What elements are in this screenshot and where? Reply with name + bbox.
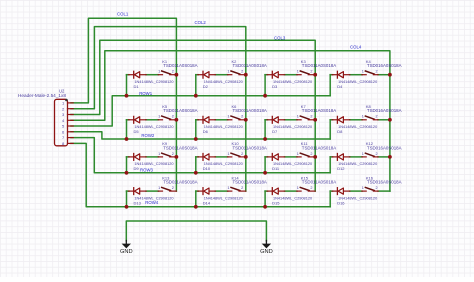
svg-text:1: 1 [158, 70, 160, 74]
svg-text:1: 1 [158, 186, 160, 190]
svg-text:TSD011A0S018A: TSD011A0S018A [233, 180, 267, 185]
svg-text:2: 2 [376, 186, 378, 190]
svg-text:TSD011A0S018A: TSD011A0S018A [233, 145, 267, 150]
svg-text:GND: GND [120, 249, 133, 255]
svg-text:1N4148WL_C2908120: 1N4148WL_C2908120 [204, 80, 243, 84]
svg-text:D16: D16 [337, 200, 345, 205]
svg-text:2: 2 [310, 186, 312, 190]
svg-text:TSD016A0S018A: TSD016A0S018A [367, 145, 402, 150]
svg-text:2: 2 [241, 152, 243, 156]
svg-text:2: 2 [172, 115, 174, 119]
svg-text:Header-Male-2.54_1x8: Header-Male-2.54_1x8 [18, 93, 66, 98]
svg-text:TSD011A0S018A: TSD011A0S018A [302, 180, 336, 185]
svg-text:1: 1 [227, 186, 229, 190]
svg-text:2: 2 [241, 186, 243, 190]
svg-text:D13: D13 [134, 200, 142, 205]
svg-text:ROW2: ROW2 [141, 133, 155, 138]
svg-text:TSD011A0S018A: TSD011A0S018A [233, 63, 267, 68]
svg-text:1: 1 [362, 70, 364, 74]
svg-text:D10: D10 [203, 166, 211, 171]
svg-text:1: 1 [362, 186, 364, 190]
svg-text:1: 1 [297, 115, 299, 119]
svg-text:D4: D4 [337, 84, 343, 89]
svg-text:1: 1 [297, 186, 299, 190]
svg-text:ROW3: ROW3 [140, 167, 154, 172]
svg-text:1N4148WL_C2908120: 1N4148WL_C2908120 [338, 80, 377, 84]
svg-text:1N4148WL_C2908120: 1N4148WL_C2908120 [338, 125, 377, 129]
svg-text:1: 1 [158, 152, 160, 156]
svg-text:1N4148WL_C2908120: 1N4148WL_C2908120 [134, 162, 173, 166]
svg-text:1: 1 [362, 115, 364, 119]
svg-text:2: 2 [172, 70, 174, 74]
svg-text:2: 2 [241, 115, 243, 119]
svg-text:TSD016A0S018A: TSD016A0S018A [367, 63, 402, 68]
svg-text:2: 2 [376, 152, 378, 156]
svg-text:TSD016A0S018A: TSD016A0S018A [367, 180, 402, 185]
svg-text:TSD011A0S018A: TSD011A0S018A [233, 108, 267, 113]
svg-text:2: 2 [310, 115, 312, 119]
svg-text:D8: D8 [337, 129, 343, 134]
svg-text:D2: D2 [203, 84, 209, 89]
svg-text:2: 2 [172, 186, 174, 190]
svg-text:TSD011A0S018A: TSD011A0S018A [163, 108, 197, 113]
svg-text:TSD011A0S018A: TSD011A0S018A [163, 180, 197, 185]
svg-text:2: 2 [241, 70, 243, 74]
svg-text:D6: D6 [203, 129, 209, 134]
svg-text:ROW1: ROW1 [139, 91, 153, 96]
svg-text:1: 1 [227, 115, 229, 119]
svg-text:1N4148WL_C2908120: 1N4148WL_C2908120 [134, 125, 173, 129]
svg-text:1N4148WL_C2908120: 1N4148WL_C2908120 [273, 125, 312, 129]
svg-text:D9: D9 [134, 166, 140, 171]
svg-text:1: 1 [297, 70, 299, 74]
svg-text:1N4148WL_C2908120: 1N4148WL_C2908120 [204, 125, 243, 129]
svg-text:2: 2 [376, 70, 378, 74]
svg-text:2: 2 [310, 152, 312, 156]
svg-text:TSD011A0S018A: TSD011A0S018A [302, 145, 336, 150]
svg-text:TSD011A0S018A: TSD011A0S018A [302, 108, 336, 113]
svg-text:TSD011A0S018A: TSD011A0S018A [163, 63, 197, 68]
svg-text:COL4: COL4 [350, 45, 362, 50]
svg-text:1: 1 [227, 70, 229, 74]
svg-text:D1: D1 [134, 84, 140, 89]
svg-text:1N4148WL_C2908120: 1N4148WL_C2908120 [134, 80, 173, 84]
svg-text:1N4148WL_C2908120: 1N4148WL_C2908120 [273, 80, 312, 84]
svg-text:2: 2 [172, 152, 174, 156]
svg-text:COL2: COL2 [195, 20, 207, 25]
svg-text:ROW4: ROW4 [145, 200, 159, 205]
svg-text:TSD016A0S018A: TSD016A0S018A [367, 108, 402, 113]
svg-text:TSD011A0S018A: TSD011A0S018A [163, 145, 197, 150]
svg-text:1: 1 [227, 152, 229, 156]
svg-text:2: 2 [376, 115, 378, 119]
svg-text:GND: GND [260, 249, 273, 255]
svg-text:COL3: COL3 [274, 35, 286, 40]
svg-text:1: 1 [297, 152, 299, 156]
svg-text:1: 1 [362, 152, 364, 156]
svg-text:COL1: COL1 [117, 12, 129, 17]
svg-text:D15: D15 [272, 200, 280, 205]
svg-text:2: 2 [310, 70, 312, 74]
svg-text:D12: D12 [337, 166, 345, 171]
svg-text:D14: D14 [203, 200, 211, 205]
svg-text:D5: D5 [134, 129, 140, 134]
svg-text:D11: D11 [272, 166, 280, 171]
svg-text:D3: D3 [272, 84, 278, 89]
svg-text:D7: D7 [272, 129, 278, 134]
svg-text:TSD011A0S018A: TSD011A0S018A [302, 63, 336, 68]
svg-text:1: 1 [158, 115, 160, 119]
